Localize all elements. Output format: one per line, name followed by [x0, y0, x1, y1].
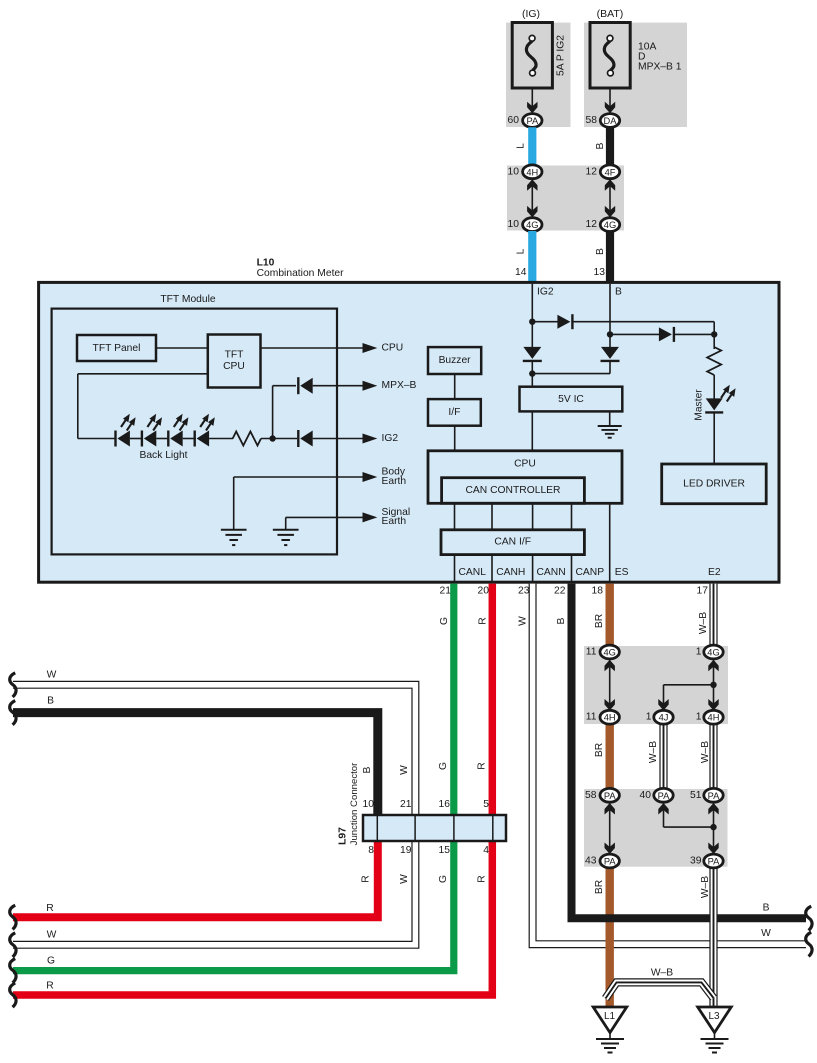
svg-text:W: W [47, 670, 57, 681]
shaded harness panel (4G/4H/4J connectors right) [584, 646, 728, 724]
svg-text:CAN CONTROLLER: CAN CONTROLLER [466, 485, 561, 496]
wire L (blue) fuse to 4H [528, 127, 536, 166]
Buzzer box [428, 347, 481, 374]
wire LED link [156, 438, 169, 440]
svg-text:L: L [516, 248, 527, 254]
ground L3 symbol [714, 1033, 716, 1039]
svg-text:10: 10 [508, 166, 520, 177]
svg-text:CPU: CPU [382, 343, 404, 354]
svg-text:39: 39 [690, 856, 702, 867]
svg-text:PA: PA [526, 116, 539, 126]
wire W loop left [13, 685, 415, 945]
wire IG2 diode to 5V IC [531, 361, 533, 387]
svg-text:B: B [595, 142, 606, 149]
wire B to diode row B [610, 333, 659, 335]
svg-text:TFT Module: TFT Module [160, 294, 216, 305]
CAN I/F box [441, 530, 584, 555]
wire IG2 to diode row A [532, 321, 558, 323]
node IG2 split [529, 319, 535, 325]
svg-text:5: 5 [483, 799, 489, 810]
LED back light 4 [193, 431, 195, 447]
svg-text:CANH: CANH [496, 567, 525, 578]
fuse 10A D MPX-B 1 element [604, 41, 614, 70]
wire W-B meter to 4G [709, 584, 717, 650]
wire resistor to node [261, 438, 297, 440]
svg-text:L10: L10 [257, 258, 275, 269]
svg-text:L97: L97 [338, 827, 349, 845]
diode row A (IG2 to master) [557, 315, 570, 329]
diode IG2 [300, 431, 313, 447]
wire CANN to meter edge [532, 555, 534, 582]
node B split [607, 331, 613, 337]
svg-text:(IG): (IG) [522, 8, 540, 20]
wire IG2 internal [531, 284, 533, 347]
svg-text:B: B [615, 287, 622, 298]
arrow MPX-B [363, 381, 378, 391]
wire G (CANL) green [13, 584, 454, 971]
svg-text:CPU: CPU [514, 459, 536, 470]
svg-text:G: G [438, 875, 449, 883]
CAN CONTROLLER box [442, 478, 585, 504]
wire 5V IC to CPU [531, 411, 533, 450]
svg-text:20: 20 [478, 586, 490, 597]
shaded harness panel (PA connectors right) [584, 789, 728, 867]
svg-text:R: R [477, 762, 488, 769]
wire L (blue) 4G to meter pin 14 [528, 231, 536, 281]
svg-text:DA: DA [604, 116, 618, 126]
wire R (CANH) red [13, 584, 492, 995]
LED master [706, 398, 723, 410]
svg-text:B: B [47, 696, 54, 707]
svg-text:19: 19 [400, 845, 412, 856]
svg-text:CANN: CANN [537, 567, 566, 578]
arrow IG2 [363, 434, 378, 444]
svg-text:58: 58 [585, 790, 597, 801]
wire node up to MPX-B diode [272, 386, 274, 439]
svg-text:Back Light: Back Light [139, 450, 187, 461]
svg-text:60: 60 [508, 115, 520, 126]
svg-text:1: 1 [696, 712, 702, 723]
connector PA (pin 58) [600, 788, 619, 802]
connector 4G (pin 12) [600, 218, 619, 232]
break mark R left bottom [10, 983, 16, 1007]
wire fuse BAT output [609, 88, 611, 107]
svg-text:W: W [399, 874, 410, 884]
wire master resistor feed [713, 334, 715, 349]
svg-text:1: 1 [696, 647, 702, 658]
svg-text:16: 16 [439, 799, 451, 810]
svg-text:E2: E2 [708, 567, 721, 578]
connector PA (pin 43) [600, 854, 619, 868]
wire W-B ground link [606, 982, 714, 998]
connector PA (pin 40) [654, 788, 673, 802]
svg-text:4G: 4G [604, 220, 616, 230]
svg-text:CANL: CANL [459, 567, 487, 578]
diode MPX-B [300, 378, 313, 394]
svg-text:(BAT): (BAT) [597, 8, 624, 20]
svg-text:12: 12 [586, 166, 598, 177]
svg-text:12: 12 [586, 219, 598, 230]
svg-text:W–B: W–B [651, 968, 673, 979]
connector 4F (pin 12) [600, 165, 619, 179]
svg-text:B: B [595, 248, 606, 255]
svg-text:21: 21 [440, 586, 452, 597]
wire master LED to LED driver [713, 413, 715, 465]
svg-text:Buzzer: Buzzer [439, 355, 472, 366]
connector 4G (pin 11) [600, 645, 619, 659]
combination meter box L10 [39, 282, 779, 582]
node 5V IC feed [529, 370, 535, 376]
wire CANL to meter edge [454, 555, 456, 582]
svg-text:W–B: W–B [700, 741, 711, 763]
wire resistor to master LED [713, 375, 715, 399]
arrow into PA connector [527, 102, 537, 114]
diode B down [601, 347, 619, 359]
wire PA51/PA40 to PA39 [713, 801, 715, 856]
svg-text:G: G [439, 617, 450, 625]
svg-text:Earth: Earth [382, 516, 407, 527]
break mark G left [10, 959, 16, 983]
svg-text:PA: PA [604, 791, 617, 801]
connector PA (pin 39) [704, 854, 723, 868]
CPU box [428, 451, 622, 504]
wire CANP to meter edge [571, 555, 573, 582]
svg-text:L: L [516, 143, 527, 149]
LED back light 3 [167, 431, 169, 447]
svg-text:B: B [763, 903, 770, 914]
diode IG2 down [523, 347, 541, 359]
wire B diode to node [609, 361, 611, 374]
svg-text:4H: 4H [526, 167, 538, 177]
wire LED4 to resistor [209, 438, 233, 440]
svg-text:B: B [556, 617, 567, 624]
connector pass-through BR 4G-4H [609, 658, 611, 712]
arrow Signal Earth [363, 512, 378, 522]
svg-text:4G: 4G [526, 220, 538, 230]
svg-text:8: 8 [368, 845, 374, 856]
wire B (black) fuse to 4F [606, 127, 614, 166]
fuse 10A D MPX-B 1 box [590, 23, 630, 89]
svg-text:IG2: IG2 [382, 433, 399, 444]
svg-text:PA: PA [708, 857, 721, 867]
wire diode to MPX-B arrow [313, 385, 366, 387]
wire ES to meter edge [609, 503, 611, 582]
wire CAN controller to CAN I/F [491, 503, 493, 530]
svg-text:G: G [47, 956, 55, 967]
svg-text:CANP: CANP [576, 567, 605, 578]
wire W-B 4H to PA51 [709, 719, 717, 797]
svg-text:4: 4 [483, 845, 489, 856]
svg-text:Master: Master [694, 389, 705, 421]
svg-text:4H: 4H [708, 713, 720, 723]
svg-text:BR: BR [594, 880, 605, 894]
wire B (CANP) to right edge [572, 584, 807, 919]
svg-text:51: 51 [690, 790, 702, 801]
arrow CPU [363, 343, 378, 353]
fuse 5A P IG2 box [512, 23, 552, 89]
wire CAN controller to CAN I/F [571, 503, 573, 530]
wire LED chain [78, 438, 116, 440]
wire CAN controller to CAN I/F [454, 503, 456, 530]
fuse 5A P IG2 element [526, 41, 536, 70]
shaded harness panel (4H/4F-4G connectors) [507, 166, 624, 231]
wire R junction to left edge [13, 839, 378, 917]
svg-text:4J: 4J [659, 713, 669, 723]
wire I/F to CPU [454, 426, 456, 451]
svg-text:W: W [518, 616, 529, 626]
connector 4H (pin 10) [523, 165, 542, 179]
break mark B right [806, 906, 812, 930]
connector 4G (pin 10) [523, 218, 542, 232]
ground L1 triangle [593, 1007, 627, 1033]
wire BR meter to 4G [606, 584, 614, 650]
ground signal earth [273, 529, 299, 531]
svg-text:LED DRIVER: LED DRIVER [683, 479, 745, 490]
wire BR 4H to PA [606, 719, 614, 797]
wire row B to node [674, 333, 714, 335]
svg-text:PA: PA [604, 857, 617, 867]
svg-text:TFT Panel: TFT Panel [93, 343, 141, 354]
LED back light 2 [141, 431, 143, 447]
svg-text:MPX–B: MPX–B [382, 380, 417, 391]
wire CAN controller to CAN I/F [532, 503, 534, 530]
break mark R left [10, 905, 16, 929]
svg-text:PA: PA [708, 791, 721, 801]
wire fuse IG output [531, 88, 533, 107]
connector DA (pin 58) [600, 114, 619, 128]
svg-text:W: W [47, 930, 57, 941]
svg-text:R: R [46, 903, 53, 914]
svg-text:23: 23 [518, 586, 530, 597]
svg-text:PA: PA [658, 791, 671, 801]
svg-text:CPU: CPU [223, 361, 245, 372]
svg-text:BR: BR [594, 614, 605, 628]
svg-text:10: 10 [363, 799, 375, 810]
wire LED link [183, 438, 196, 440]
wire 5V IC ground [609, 411, 611, 425]
shaded harness panel (BAT fuse area) [584, 23, 687, 127]
svg-text:4H: 4H [604, 713, 616, 723]
svg-text:TFT: TFT [225, 350, 245, 361]
svg-text:W: W [399, 765, 410, 775]
svg-text:W–B: W–B [700, 876, 711, 898]
svg-text:L3: L3 [708, 1011, 720, 1022]
connector pass-through right [609, 178, 611, 219]
arrow into DA connector [605, 102, 615, 114]
break mark W left top [10, 673, 16, 697]
ground 5V IC [598, 425, 622, 427]
wire row A to corner [573, 321, 714, 323]
svg-text:ES: ES [615, 567, 629, 578]
wire body earth [234, 476, 366, 478]
wire buzzer to I/F [454, 374, 456, 399]
svg-text:CAN I/F: CAN I/F [494, 537, 531, 548]
svg-text:18: 18 [592, 586, 604, 597]
wire B (black) 4G to meter pin 13 [606, 231, 614, 281]
wire B left to junction [13, 713, 378, 817]
svg-text:5V IC: 5V IC [558, 394, 584, 405]
ground L1 symbol [609, 1033, 611, 1039]
junction connector L97 bar [363, 815, 506, 841]
svg-text:4G: 4G [603, 648, 615, 658]
svg-text:5A P IG2: 5A P IG2 [556, 35, 567, 76]
svg-text:R: R [46, 981, 53, 992]
5V IC box [520, 387, 623, 412]
svg-text:11: 11 [586, 712, 597, 723]
TFT module box [52, 309, 337, 555]
connector 4H (pin 1) [704, 710, 723, 724]
svg-text:13: 13 [594, 267, 606, 278]
connector 4H (pin 11) [600, 710, 619, 724]
svg-text:L1: L1 [604, 1011, 616, 1022]
svg-text:4F: 4F [605, 167, 616, 177]
svg-text:Junction Connector: Junction Connector [349, 762, 360, 845]
svg-text:1: 1 [646, 712, 652, 723]
node master feed [711, 331, 717, 337]
diode row B (B to master) [659, 327, 672, 341]
wire TFT CPU to CPU arrow [261, 347, 367, 349]
wire CANH to meter edge [491, 555, 493, 582]
connector 4G (pin 1) [704, 645, 723, 659]
TFT CPU box [208, 335, 261, 388]
svg-text:11: 11 [586, 647, 597, 658]
shaded harness panel (IG fuse area) [506, 23, 571, 127]
svg-text:MPX–B 1: MPX–B 1 [638, 61, 682, 72]
svg-text:17: 17 [697, 586, 709, 597]
connector PA (pin 51) [704, 788, 723, 802]
svg-text:58: 58 [586, 115, 598, 126]
ground L3 triangle [698, 1007, 732, 1033]
svg-text:22: 22 [554, 586, 566, 597]
wire TFT CPU left branch [78, 373, 208, 375]
svg-text:G: G [438, 762, 449, 770]
svg-text:I/F: I/F [448, 407, 460, 418]
connector PA (pin 60) [523, 114, 542, 128]
svg-text:40: 40 [640, 790, 652, 801]
connector 4J (pin 1) [654, 710, 673, 724]
ground body earth [221, 529, 247, 531]
wire W-B 4J to PA40 [659, 719, 667, 797]
svg-text:10: 10 [508, 219, 520, 230]
arrow Body Earth [363, 472, 378, 482]
resistor master [707, 347, 721, 375]
svg-text:Earth: Earth [382, 476, 407, 487]
wire TFT Panel to TFT CPU [156, 347, 208, 349]
svg-text:W–B: W–B [648, 741, 659, 763]
svg-text:W–B: W–B [698, 612, 709, 634]
LED back light 1 [114, 431, 116, 447]
wire W-B PA39 to L3 [709, 859, 717, 1008]
LED DRIVER box [662, 464, 767, 504]
connector pass-through BR PA-PA [609, 801, 611, 856]
svg-text:Combination Meter: Combination Meter [257, 268, 345, 279]
svg-text:R: R [477, 875, 488, 882]
svg-text:21: 21 [400, 799, 412, 810]
node back light junction [269, 435, 275, 441]
resistor back light [233, 432, 261, 446]
wire B internal [609, 284, 611, 347]
svg-text:43: 43 [585, 856, 597, 867]
break mark B left [10, 701, 16, 725]
wire BR PA to L1 [606, 859, 614, 1008]
svg-text:IG2: IG2 [537, 287, 554, 298]
wire W (CANN) [533, 584, 806, 945]
wire 4G to 4H/4J right [713, 658, 715, 712]
svg-text:B: B [362, 766, 373, 773]
TFT Panel box [77, 335, 156, 361]
svg-text:W: W [761, 928, 771, 939]
wire LED link [130, 438, 143, 440]
connector pass-through left [531, 178, 533, 219]
svg-text:4G: 4G [707, 648, 719, 658]
svg-text:14: 14 [515, 267, 527, 278]
svg-text:R: R [478, 617, 489, 624]
break mark W right [806, 932, 812, 956]
wire diode to IG2 arrow [313, 438, 366, 440]
svg-text:R: R [361, 875, 372, 882]
I/F box [428, 399, 481, 426]
svg-text:BR: BR [594, 743, 605, 757]
wire signal earth [286, 516, 366, 518]
break mark W left bottom [10, 933, 16, 957]
svg-text:15: 15 [439, 845, 451, 856]
